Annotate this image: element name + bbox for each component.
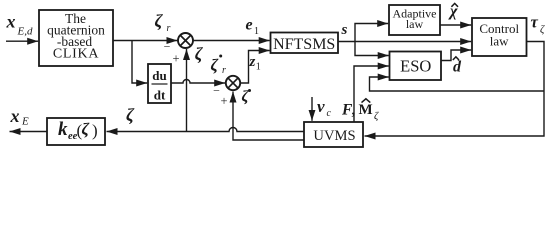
- svg-text:1: 1: [254, 26, 259, 37]
- svg-text:ζ: ζ: [155, 11, 164, 31]
- wire UVMS zeta out to kee with hop: [107, 128, 305, 132]
- svg-text:ζ: ζ: [126, 105, 135, 125]
- wire s branch to Adaptive law: [355, 24, 388, 42]
- svg-text:z: z: [249, 54, 256, 70]
- svg-text:c: c: [327, 108, 332, 119]
- label z1: [249, 54, 261, 73]
- label zeta_r: [155, 11, 171, 34]
- svg-text:+: +: [221, 94, 228, 108]
- svg-text:E: E: [21, 116, 29, 128]
- svg-text:,: ,: [352, 103, 356, 119]
- svg-text:x: x: [6, 11, 16, 31]
- svg-text:law: law: [490, 34, 509, 49]
- label nu_c: [317, 97, 332, 119]
- wire nu_c into UVMS top: [311, 97, 313, 121]
- wire tau feedback to ESO input 3: [370, 77, 545, 91]
- sum junction 1: [178, 33, 193, 48]
- svg-text:ζ: ζ: [211, 56, 219, 75]
- block CLIKA: [39, 10, 113, 66]
- wire ESO to Control law d hat: [441, 50, 471, 61]
- svg-text:d: d: [453, 58, 462, 75]
- wire zeta branch up into sum1: [186, 49, 188, 132]
- label chi hat: [448, 3, 458, 20]
- svg-text:k: k: [58, 119, 68, 140]
- svg-text:): ): [92, 121, 98, 140]
- svg-text:du: du: [152, 68, 166, 83]
- svg-text:NFTSMS: NFTSMS: [273, 36, 335, 53]
- block ESO: [390, 52, 442, 81]
- svg-text:E,d: E,d: [17, 26, 33, 38]
- svg-text:1: 1: [256, 62, 261, 73]
- wire Control law tau output down to UVMS: [365, 42, 545, 137]
- svg-text:r: r: [167, 23, 171, 34]
- svg-text:dt: dt: [154, 88, 166, 103]
- block NFTSMS: [271, 33, 339, 54]
- svg-text:M: M: [359, 102, 373, 118]
- block Adaptive law: [389, 5, 440, 35]
- wire UVMS F Mhat up to ESO input 2: [354, 66, 389, 122]
- svg-text:τ: τ: [531, 13, 539, 32]
- wire du/dt to sum2 with hop over zeta line: [171, 80, 225, 84]
- label d hat: [453, 57, 462, 76]
- label zeta dot at sum2: [242, 89, 252, 106]
- label zeta_r dot: [211, 55, 227, 76]
- wire Adaptive law to Control law chi hat: [440, 24, 471, 26]
- label x_E: [10, 106, 30, 128]
- svg-text:x: x: [10, 106, 20, 126]
- label e1: [246, 17, 260, 38]
- wire sum1 to NFTSMS e1: [193, 40, 270, 42]
- block Control law: [472, 18, 527, 56]
- wire branch down to du/dt: [132, 41, 147, 84]
- svg-text:ESO: ESO: [400, 56, 431, 75]
- svg-text:s: s: [341, 22, 348, 38]
- wire kee out to xE arrow: [10, 131, 48, 133]
- label F Mhat zeta: [341, 99, 379, 122]
- wire xEd input arrow: [6, 40, 38, 42]
- svg-text:ζ: ζ: [82, 120, 90, 139]
- svg-text:+: +: [173, 51, 180, 65]
- wire sum2 to NFTSMS z1: [240, 51, 270, 84]
- label x_E,d: [6, 11, 33, 37]
- svg-text:ζ: ζ: [540, 25, 545, 36]
- svg-text:e: e: [246, 17, 253, 34]
- wire UVMS zeta-dot out up into sum2: [233, 92, 304, 141]
- svg-text:r: r: [222, 65, 226, 76]
- wire s branch to ESO: [355, 42, 389, 56]
- label tau_zeta: [531, 13, 546, 36]
- svg-text:−: −: [164, 40, 171, 54]
- block du/dt: [148, 64, 171, 103]
- svg-text:CLIKA: CLIKA: [53, 47, 99, 62]
- block kee: [47, 118, 105, 145]
- svg-text:ν: ν: [317, 97, 325, 116]
- svg-text:ζ: ζ: [195, 44, 204, 64]
- svg-text:law: law: [406, 17, 424, 31]
- wire CLIKA to sum1: [113, 40, 178, 42]
- svg-text:ζ: ζ: [374, 111, 379, 122]
- wire NFTSMS to Control law s: [338, 41, 471, 43]
- block UVMS: [304, 122, 363, 147]
- svg-text:−: −: [213, 84, 220, 98]
- svg-text:UVMS: UVMS: [313, 128, 355, 144]
- sum junction 2: [226, 76, 240, 90]
